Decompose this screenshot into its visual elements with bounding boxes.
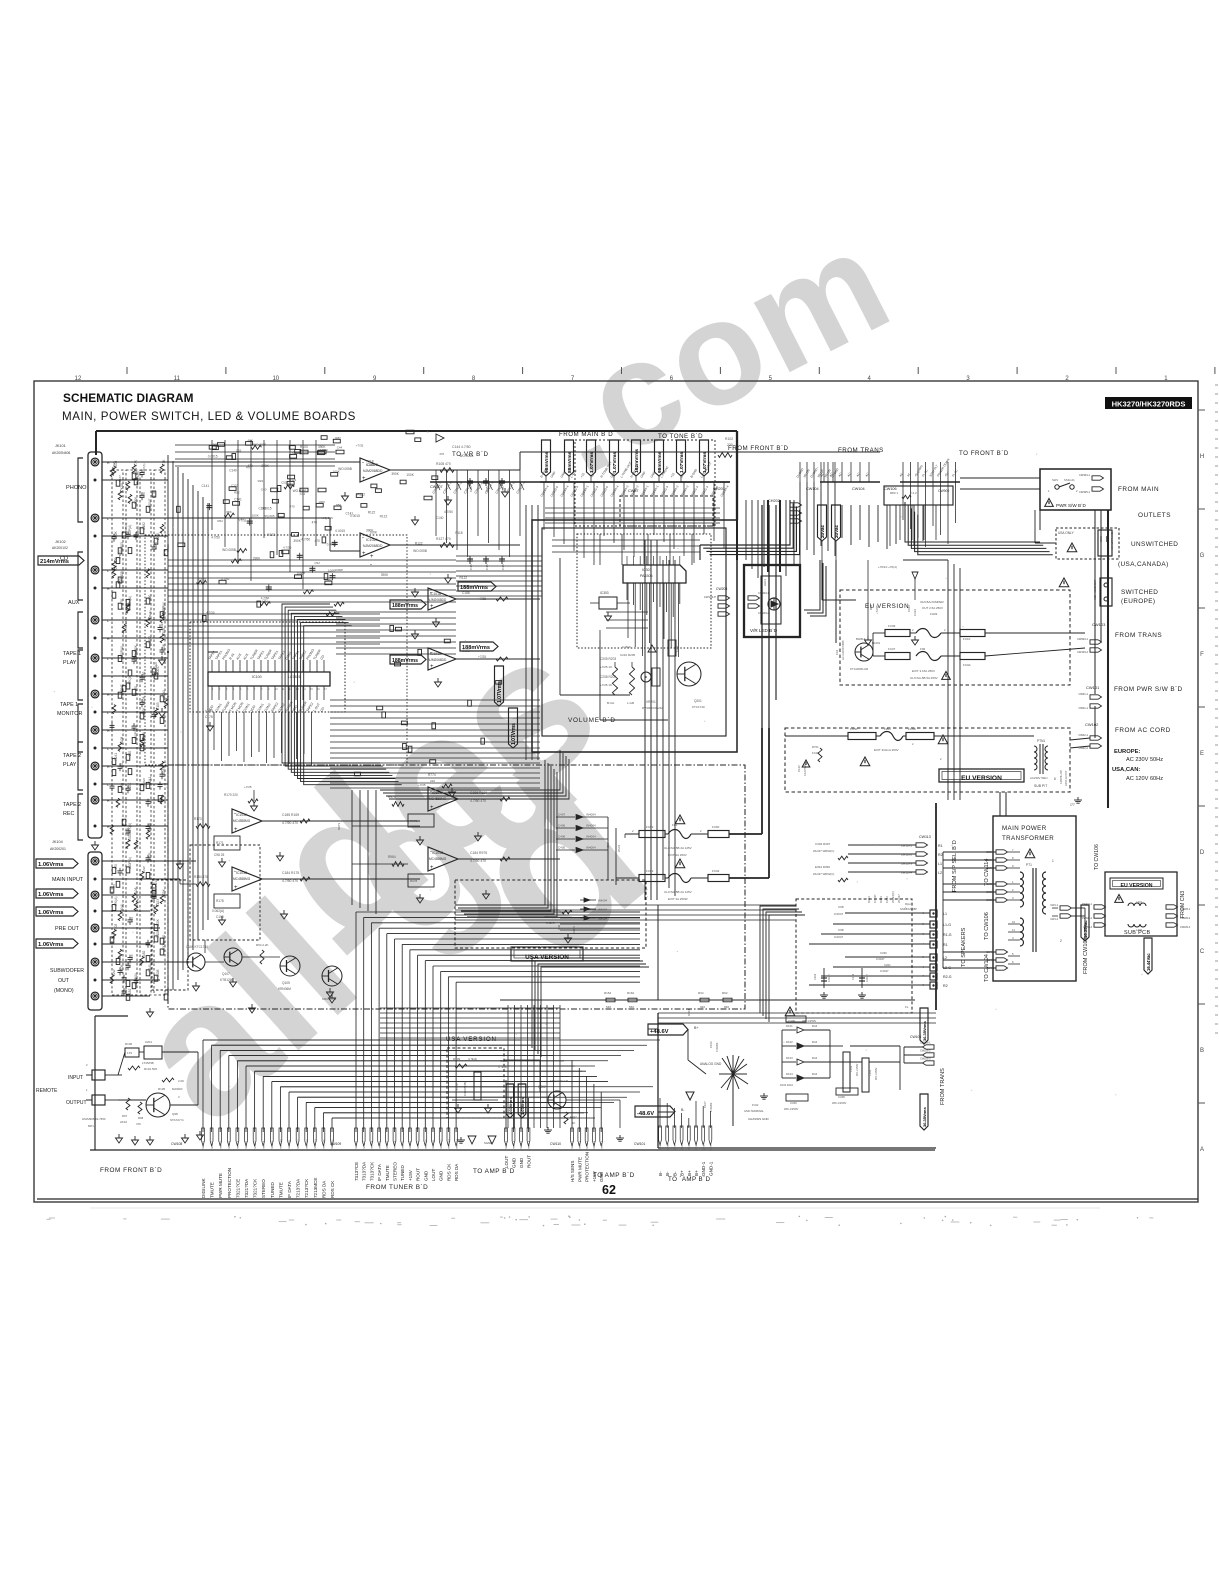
svg-text:CW1-2: CW1-2: [667, 1142, 669, 1150]
svg-text:4.7/50: 4.7/50: [221, 577, 230, 581]
svg-text:C103: C103: [162, 768, 166, 776]
svg-text:100K: 100K: [134, 496, 138, 504]
svg-text:NO-INST-TH A21: NO-INST-TH A21: [1111, 531, 1114, 550]
svg-text:DIGILINK: DIGILINK: [201, 1177, 206, 1198]
svg-text:MC4558MG: MC4558MG: [429, 857, 447, 861]
svg-text:CW108-5: CW108-5: [238, 1140, 240, 1150]
svg-text:CW1-8: CW1-8: [711, 1142, 713, 1150]
svg-text:HK3270/HK3270RDS: HK3270/HK3270RDS: [1112, 400, 1186, 409]
svg-text:STEREO: STEREO: [393, 1162, 398, 1181]
svg-text:R971: R971: [410, 819, 418, 823]
svg-text:-48.6V: -48.6V: [637, 1111, 654, 1117]
svg-text:FC07: FC07: [888, 647, 896, 651]
svg-text:LED1: LED1: [763, 579, 767, 586]
svg-text:AC230V 50Hz: AC230V 50Hz: [1030, 776, 1048, 780]
svg-text:FC09: FC09: [888, 624, 896, 628]
svg-text:100P(A): 100P(A): [142, 464, 146, 475]
svg-text:R171: R171: [216, 841, 224, 845]
svg-text:CW203-2: CW203-2: [758, 611, 770, 615]
svg-text:KTC3209-GR: KTC3209-GR: [550, 1079, 569, 1083]
svg-text:0.0047: 0.0047: [148, 498, 152, 508]
svg-text:470: 470: [439, 452, 444, 456]
svg-text:L401: L401: [1136, 900, 1143, 904]
svg-text:2 2.2: 2 2.2: [910, 491, 917, 495]
svg-text:CW1-4: CW1-4: [682, 1142, 684, 1150]
svg-text:VA/C5A/JUMPER: VA/C5A/JUMPER: [920, 600, 944, 604]
svg-text:GND: GND: [512, 1157, 517, 1168]
svg-text:B: B: [1200, 1048, 1204, 1054]
svg-text:B/: B/: [1053, 777, 1057, 780]
svg-text:R102: R102: [725, 437, 733, 441]
svg-text:IF DATA: IF DATA: [377, 1163, 382, 1181]
svg-text:C140: C140: [436, 516, 444, 520]
svg-text:MA9003: MA9003: [172, 1087, 183, 1091]
svg-text:C45: C45: [501, 564, 505, 570]
svg-text:PWR S/W B`D: PWR S/W B`D: [1056, 503, 1087, 508]
svg-text:CW101: CW101: [634, 1142, 645, 1146]
svg-text:CW108-4: CW108-4: [229, 1140, 231, 1150]
svg-text:220: 220: [130, 917, 134, 922]
svg-text:CW1-5: CW1-5: [689, 1142, 691, 1150]
svg-text:C141: C141: [202, 484, 210, 488]
svg-text:20Vac: 20Vac: [834, 525, 839, 538]
svg-text:4.7/50 470: 4.7/50 470: [282, 821, 298, 825]
svg-text:R44: R44: [812, 1024, 818, 1028]
svg-text:SUB P/T: SUB P/T: [1034, 784, 1047, 788]
svg-text:4.7E(4): 4.7E(4): [498, 1065, 507, 1069]
svg-text:MC4558MG: MC4558MG: [233, 877, 251, 881]
svg-text:-: -: [370, 562, 372, 568]
svg-text:4.7/50: 4.7/50: [444, 510, 453, 514]
svg-text:-: -: [362, 460, 364, 466]
svg-text:22/16: 22/16: [120, 1120, 127, 1124]
svg-text:SSIG-01: SSIG-01: [1064, 478, 1075, 482]
svg-text:100P(A): 100P(A): [120, 646, 124, 658]
svg-text:CH202: CH202: [768, 499, 780, 503]
svg-text:-: -: [362, 535, 364, 541]
svg-text:UNSWITCHED: UNSWITCHED: [1131, 541, 1178, 548]
svg-text:0.0047: 0.0047: [880, 969, 889, 973]
svg-text:C167: C167: [124, 619, 128, 627]
svg-text:Q107: Q107: [222, 972, 230, 976]
svg-text:1000/25(3B): 1000/25(3B): [463, 1082, 467, 1096]
svg-text:FU50: FU50: [850, 727, 858, 731]
svg-text:C202: C202: [813, 973, 817, 980]
svg-text:1/2W: 1/2W: [142, 866, 146, 873]
svg-text:CW103-2: CW103-2: [1077, 650, 1089, 654]
svg-text:100P(A): 100P(A): [136, 526, 140, 537]
svg-text:4.7E(4): 4.7E(4): [468, 1057, 477, 1061]
svg-text:R241: R241: [148, 964, 152, 972]
svg-text:20Vac: 20Vac: [820, 525, 825, 538]
svg-text:1K: 1K: [572, 1121, 576, 1125]
svg-text:960: 960: [724, 1005, 729, 1009]
svg-text:7321?DA: 7321?DA: [244, 1178, 249, 1198]
svg-text:CW1-1: CW1-1: [660, 1142, 662, 1150]
svg-text:4.7/50 470: 4.7/50 470: [470, 799, 486, 803]
svg-text:R108 470: R108 470: [436, 462, 451, 466]
svg-text:Q105: Q105: [282, 981, 290, 985]
svg-text:CW103: CW103: [1092, 622, 1106, 627]
svg-text:4.7/50 470: 4.7/50 470: [470, 859, 486, 863]
svg-text:390K: 390K: [381, 573, 389, 577]
svg-text:100K: 100K: [252, 514, 259, 518]
svg-text:CW1-6: CW1-6: [696, 1142, 698, 1150]
svg-text:INPUT: INPUT: [68, 1075, 83, 1081]
svg-text:4.7/50: 4.7/50: [206, 610, 215, 614]
svg-text:RDS CK: RDS CK: [446, 1163, 451, 1181]
svg-text:CW109-2: CW109-2: [364, 1140, 366, 1150]
svg-text:FC0A: FC0A: [963, 663, 971, 667]
svg-text:220: 220: [128, 751, 132, 757]
svg-text:C04: C04: [835, 649, 839, 655]
svg-text:VR201: VR201: [646, 700, 656, 704]
svg-text:A: A: [1200, 1147, 1204, 1153]
svg-text:+: +: [370, 554, 374, 560]
svg-text:CW108-13: CW108-13: [306, 1139, 308, 1150]
svg-text:R44: R44: [812, 1056, 818, 1060]
svg-text:1/2W: 1/2W: [112, 462, 116, 469]
svg-text:MAIN INPUT: MAIN INPUT: [52, 877, 84, 883]
svg-text:GND8/GND8P: GND8/GND8P: [900, 907, 917, 911]
svg-text:K201: K201: [145, 1040, 152, 1044]
svg-text:WD.1/250V: WD.1/250V: [856, 1063, 859, 1076]
svg-text:47K(A): 47K(A): [142, 737, 146, 747]
svg-text:R103: R103: [300, 445, 308, 449]
svg-text:FC10: FC10: [963, 637, 971, 641]
svg-text:R101 506: R101 506: [144, 1067, 157, 1071]
svg-text:214mVrms: 214mVrms: [40, 559, 69, 565]
svg-text:R52: R52: [217, 519, 223, 523]
svg-text:FROM CN3: FROM CN3: [1180, 891, 1186, 918]
svg-text:47K(A): 47K(A): [128, 675, 132, 685]
svg-text:C103: C103: [156, 702, 160, 710]
svg-text:(EUROPE): (EUROPE): [1121, 598, 1155, 605]
svg-text:4.7/50: 4.7/50: [319, 448, 328, 452]
svg-text:100K: 100K: [114, 530, 118, 538]
svg-text:GND: GND: [519, 1157, 524, 1168]
svg-text:GND-TERMINAL: GND-TERMINAL: [744, 1109, 764, 1113]
svg-text:CW108-6: CW108-6: [246, 1140, 248, 1150]
svg-text:FC03: FC03: [646, 869, 654, 873]
svg-text:NJM2068DD: NJM2068DD: [428, 658, 447, 662]
svg-text:V/R LED B`D: V/R LED B`D: [750, 628, 778, 633]
svg-text:12: 12: [75, 376, 82, 382]
svg-text:SUBWOOFER: SUBWOOFER: [50, 968, 84, 974]
svg-text:IC103A: IC103A: [236, 813, 248, 817]
svg-text:+: +: [234, 885, 238, 891]
svg-text:CW109-5: CW109-5: [387, 1140, 389, 1150]
svg-text:EU VERSION: EU VERSION: [1121, 883, 1153, 889]
svg-text:C44: C44: [337, 446, 343, 450]
svg-text:OUTLETS: OUTLETS: [1138, 512, 1171, 519]
svg-text:CW87: CW87: [628, 489, 639, 493]
svg-text:MP1: MP1: [88, 1124, 94, 1128]
svg-text:CW108: CW108: [171, 1142, 182, 1146]
svg-text:CW112-1: CW112-1: [572, 1140, 574, 1150]
svg-text:KTC1740: KTC1740: [692, 705, 705, 709]
svg-text:C205 R203: C205 R203: [600, 657, 616, 661]
svg-text:AC-CAP/470BPF: AC-CAP/470BPF: [841, 640, 845, 660]
svg-text:FROM TUNER B`D: FROM TUNER B`D: [366, 1184, 428, 1191]
svg-text:+7/25: +7/25: [418, 783, 426, 787]
svg-text:C96: C96: [606, 842, 610, 848]
svg-text:MAIN POWER: MAIN POWER: [1002, 825, 1047, 832]
svg-text:FROM CW103: FROM CW103: [1083, 937, 1089, 974]
svg-text:470: 470: [134, 686, 138, 692]
svg-text:USA VERSION: USA VERSION: [446, 1036, 497, 1043]
svg-text:C52: C52: [281, 481, 287, 485]
svg-text:0.0015: 0.0015: [335, 529, 345, 533]
svg-text:R2: R2: [943, 984, 948, 988]
svg-text:0.0015: 0.0015: [208, 455, 218, 459]
svg-text:AC 230V 50Hz: AC 230V 50Hz: [1126, 757, 1163, 763]
svg-text:CW203-1: CW203-1: [758, 591, 770, 595]
svg-text:STA7A/Y1: STA7A/Y1: [170, 1118, 184, 1122]
svg-text:4.7K: 4.7K: [162, 459, 166, 466]
svg-text:CW1-1: CW1-1: [1050, 904, 1058, 907]
svg-text:CW112-5: CW112-5: [601, 1140, 603, 1150]
svg-text:B-: B-: [658, 1171, 663, 1176]
svg-text:KTB1266: KTB1266: [220, 978, 234, 982]
svg-text:C40: C40: [261, 488, 267, 492]
svg-text:GND-1: GND-1: [708, 1161, 713, 1176]
svg-text:0.062(A): 0.062(A): [212, 909, 224, 913]
svg-text:390K: 390K: [391, 472, 399, 476]
svg-text:+48.6V: +48.6V: [650, 1029, 669, 1035]
svg-text:+: +: [430, 865, 434, 871]
svg-text:C122: C122: [797, 765, 801, 772]
svg-text:R87: R87: [335, 436, 341, 440]
svg-text:TAPE 1: TAPE 1: [60, 702, 78, 708]
svg-text:C106: C106: [709, 1041, 713, 1048]
svg-text:GND: GND: [439, 1170, 444, 1181]
svg-text:KRN06M: KRN06M: [278, 987, 291, 991]
svg-text:7213?CK: 7213?CK: [304, 1178, 309, 1198]
svg-text:C406: C406: [558, 835, 566, 839]
svg-text:36.35Vrms: 36.35Vrms: [922, 1106, 927, 1127]
svg-text:N/AMI: N/AMI: [154, 662, 158, 671]
svg-text:CW304-1: CW304-1: [1079, 473, 1091, 477]
svg-text:FH03: FH03: [930, 612, 938, 616]
svg-text:R98: R98: [138, 1116, 144, 1120]
svg-text:C182: C182: [142, 522, 146, 530]
svg-text:1.06Vrms: 1.06Vrms: [38, 942, 63, 948]
svg-text:7321?CK: 7321?CK: [253, 1178, 258, 1198]
svg-text:(USA,CANADA): (USA,CANADA): [1118, 561, 1169, 568]
svg-text:+7/35: +7/35: [356, 444, 364, 448]
svg-text:H/S SENS: H/S SENS: [570, 1161, 575, 1182]
svg-text:IF DATA: IF DATA: [287, 1180, 292, 1198]
svg-text:TMUTE: TMUTE: [385, 1165, 390, 1181]
svg-text:EUROPE:: EUROPE:: [1114, 749, 1140, 755]
svg-text:CW113-1: CW113-1: [901, 844, 913, 848]
svg-text:C103: C103: [114, 923, 118, 931]
svg-text:R1: R1: [938, 844, 943, 848]
svg-text:100P(A): 100P(A): [128, 525, 132, 537]
svg-text:C182: C182: [128, 988, 132, 996]
svg-text:FC60: FC60: [712, 825, 720, 829]
svg-text:940: 940: [700, 1005, 705, 1009]
svg-text:10: 10: [272, 376, 279, 382]
svg-text:+7/25: +7/25: [478, 655, 486, 659]
svg-text:F: F: [1200, 652, 1204, 658]
svg-text:R241: R241: [148, 852, 152, 860]
svg-text:CW112-4: CW112-4: [594, 1140, 596, 1150]
svg-text:2.0K: 2.0K: [178, 1079, 184, 1083]
svg-text:1/2W: 1/2W: [112, 969, 116, 976]
svg-text:WO.0015: WO.0015: [253, 442, 266, 446]
svg-text:CW1-7: CW1-7: [703, 1142, 705, 1150]
svg-text:D103: D103: [786, 1056, 793, 1060]
svg-text:RV30FONG29A: RV30FONG29A: [642, 706, 663, 710]
svg-text:100K: 100K: [128, 782, 132, 790]
svg-text:E: E: [1200, 751, 1204, 757]
svg-text:C167: C167: [124, 680, 128, 688]
svg-text:CW109-13: CW109-13: [449, 1139, 451, 1150]
svg-text:IN4004: IN4004: [598, 908, 607, 912]
svg-text:CW02-1: CW02-1: [1078, 733, 1088, 737]
svg-text:CW401-2: CW401-2: [1082, 917, 1093, 920]
svg-text:11: 11: [174, 376, 181, 382]
svg-text:R122: R122: [380, 515, 388, 519]
svg-text:R127 470: R127 470: [436, 537, 451, 541]
svg-text:68K: 68K: [226, 510, 231, 514]
svg-text:+15V: +15V: [408, 1169, 413, 1181]
svg-text:CW01-1: CW01-1: [1078, 692, 1088, 696]
svg-text:CW110-3: CW110-3: [521, 1140, 523, 1150]
svg-text:EXIT 3.15A 250V: EXIT 3.15A 250V: [912, 669, 935, 673]
svg-text:C40: C40: [238, 517, 244, 521]
svg-text:PLAY: PLAY: [63, 660, 77, 666]
svg-text:C98: C98: [838, 928, 844, 932]
svg-text:C103: C103: [156, 899, 160, 907]
svg-text:100K: 100K: [333, 469, 340, 473]
svg-text:1: 1: [1052, 859, 1054, 863]
svg-text:FROM TRANS: FROM TRANS: [940, 1068, 946, 1105]
svg-text:TO CW104: TO CW104: [984, 954, 990, 982]
svg-text:68K: 68K: [336, 503, 341, 507]
svg-text:PROTECTION: PROTECTION: [585, 1152, 590, 1182]
svg-text:R173: R173: [194, 817, 202, 821]
svg-text:R2: R2: [938, 853, 943, 857]
svg-text:+70/10 +70(4): +70/10 +70(4): [878, 565, 897, 569]
svg-text:47K(A): 47K(A): [120, 904, 124, 914]
svg-text:CW112-2: CW112-2: [580, 1140, 582, 1150]
svg-text:7313?CK: 7313?CK: [369, 1161, 374, 1181]
svg-text:R108: R108: [120, 737, 124, 745]
svg-text:R122: R122: [357, 492, 365, 496]
svg-text:WL01: WL01: [617, 844, 621, 852]
svg-text:188mVrms: 188mVrms: [392, 658, 418, 664]
svg-text:470: 470: [290, 505, 295, 509]
svg-text:USA,CAN:: USA,CAN:: [1112, 767, 1140, 773]
svg-text:OUT: OUT: [58, 978, 70, 984]
svg-text:1.07Vrms: 1.07Vrms: [612, 452, 618, 473]
svg-text:+: +: [430, 604, 434, 610]
svg-text:IN4004: IN4004: [586, 846, 596, 850]
svg-text:R1: R1: [943, 943, 948, 947]
svg-text:CW108-14: CW108-14: [315, 1139, 317, 1150]
svg-text:L2: L2: [943, 956, 947, 960]
svg-text:47K(A): 47K(A): [128, 823, 132, 833]
svg-text:CW113-3: CW113-3: [901, 862, 913, 866]
svg-text:C52: C52: [314, 561, 320, 565]
svg-text:MONITOR: MONITOR: [57, 711, 82, 717]
svg-text:98mVrms: 98mVrms: [657, 451, 663, 473]
svg-text:C348: C348: [838, 1095, 845, 1099]
svg-text:0.022: 0.022: [166, 988, 170, 996]
svg-text:1000P: 1000P: [297, 572, 306, 576]
svg-text:R97: R97: [122, 1114, 128, 1118]
svg-text:R984: R984: [388, 855, 396, 859]
svg-text:CW113-4: CW113-4: [901, 871, 913, 875]
svg-text:FROM MAIN: FROM MAIN: [1118, 486, 1159, 493]
svg-text:FROM FRONT B`D: FROM FRONT B`D: [100, 1167, 162, 1174]
svg-text:7213?DA: 7213?DA: [296, 1178, 301, 1198]
svg-text:CW108-8: CW108-8: [263, 1140, 265, 1150]
svg-text:AC 120V 60Hz: AC 120V 60Hz: [1126, 776, 1163, 782]
svg-text:UL/CSA-5B 2A 125V: UL/CSA-5B 2A 125V: [664, 890, 692, 894]
svg-text:C167: C167: [118, 576, 122, 584]
svg-text:LOUT: LOUT: [431, 1169, 436, 1181]
svg-text:L1: L1: [938, 862, 942, 866]
svg-text:100P(A): 100P(A): [162, 602, 166, 614]
svg-text:PWR MUTE: PWR MUTE: [577, 1157, 582, 1182]
svg-text:IC100: IC100: [252, 675, 262, 679]
svg-text:0.1/275(A): 0.1/275(A): [803, 764, 807, 776]
svg-text:Q201: Q201: [694, 699, 702, 703]
svg-text:CW109-6: CW109-6: [395, 1140, 397, 1150]
svg-text:CW203: CW203: [716, 587, 727, 591]
svg-text:+: +: [362, 476, 366, 482]
svg-text:G: G: [1200, 553, 1205, 559]
svg-text:0.0047: 0.0047: [834, 935, 844, 939]
svg-text:C406: C406: [558, 824, 566, 828]
svg-text:C182: C182: [148, 636, 152, 644]
svg-text:C195: C195: [216, 915, 224, 919]
svg-text:D104: D104: [786, 1072, 793, 1076]
svg-text:470: 470: [315, 539, 321, 543]
svg-text:R233: R233: [154, 879, 158, 887]
svg-text:R23: R23: [258, 479, 264, 483]
svg-text:CW112-3: CW112-3: [587, 1140, 589, 1150]
svg-text:R44: R44: [812, 1040, 818, 1044]
svg-text:CW105-3: CW105-3: [1180, 926, 1191, 929]
svg-text:F#01: F#01: [884, 727, 891, 731]
svg-text:C394 R397: C394 R397: [815, 842, 831, 846]
svg-text:R774: R774: [428, 773, 436, 777]
svg-text:88mVrms: 88mVrms: [567, 451, 573, 473]
svg-text:TO AMP B`D: TO AMP B`D: [593, 1172, 635, 1179]
svg-text:1000P: 1000P: [335, 568, 344, 572]
svg-text:47K(A): 47K(A): [148, 610, 152, 619]
svg-text:100K: 100K: [318, 500, 325, 504]
svg-text:0.022: 0.022: [913, 609, 917, 616]
svg-text:LOUT: LOUT: [504, 1156, 509, 1168]
svg-text:C45: C45: [469, 564, 473, 570]
svg-text:Q98: Q98: [172, 1112, 178, 1116]
svg-text:WQ.005: WQ.005: [264, 514, 275, 518]
svg-text:R122: R122: [415, 541, 423, 545]
svg-text:C188: C188: [462, 591, 470, 595]
svg-text:C144 4.7/50: C144 4.7/50: [452, 445, 471, 449]
svg-text:R105: R105: [158, 1087, 166, 1091]
svg-text:C: C: [1200, 949, 1205, 955]
svg-text:R978: R978: [410, 879, 418, 883]
svg-text:4.7/50: 4.7/50: [328, 609, 337, 613]
svg-text:GND: GND: [423, 1170, 428, 1181]
